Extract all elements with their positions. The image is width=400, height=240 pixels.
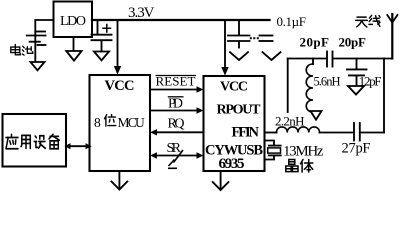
svg-text:6935: 6935 <box>219 156 245 172</box>
svg-text:20pF: 20pF <box>339 34 367 49</box>
svg-text:FFIN: FFIN <box>232 124 260 140</box>
svg-text:MCU: MCU <box>118 115 146 130</box>
svg-text:12pF: 12pF <box>359 74 382 89</box>
svg-text:VCC: VCC <box>105 78 135 94</box>
svg-text:8: 8 <box>94 115 101 130</box>
svg-text:SR: SR <box>167 141 182 156</box>
svg-text:5.6nH: 5.6nH <box>314 75 341 89</box>
svg-text:27pF: 27pF <box>342 140 371 156</box>
svg-text:PD: PD <box>168 97 183 112</box>
svg-text:RQ: RQ <box>168 117 185 132</box>
svg-text:13MHz: 13MHz <box>283 143 324 159</box>
svg-text:LDO: LDO <box>60 14 86 29</box>
svg-text:2.2nH: 2.2nH <box>275 113 305 128</box>
svg-text:RPOUT: RPOUT <box>217 102 262 117</box>
svg-text:3.3V: 3.3V <box>128 5 155 21</box>
svg-text:0.1µF: 0.1µF <box>277 14 307 29</box>
svg-text:20pF: 20pF <box>300 34 330 49</box>
svg-text:VCC: VCC <box>220 80 248 95</box>
